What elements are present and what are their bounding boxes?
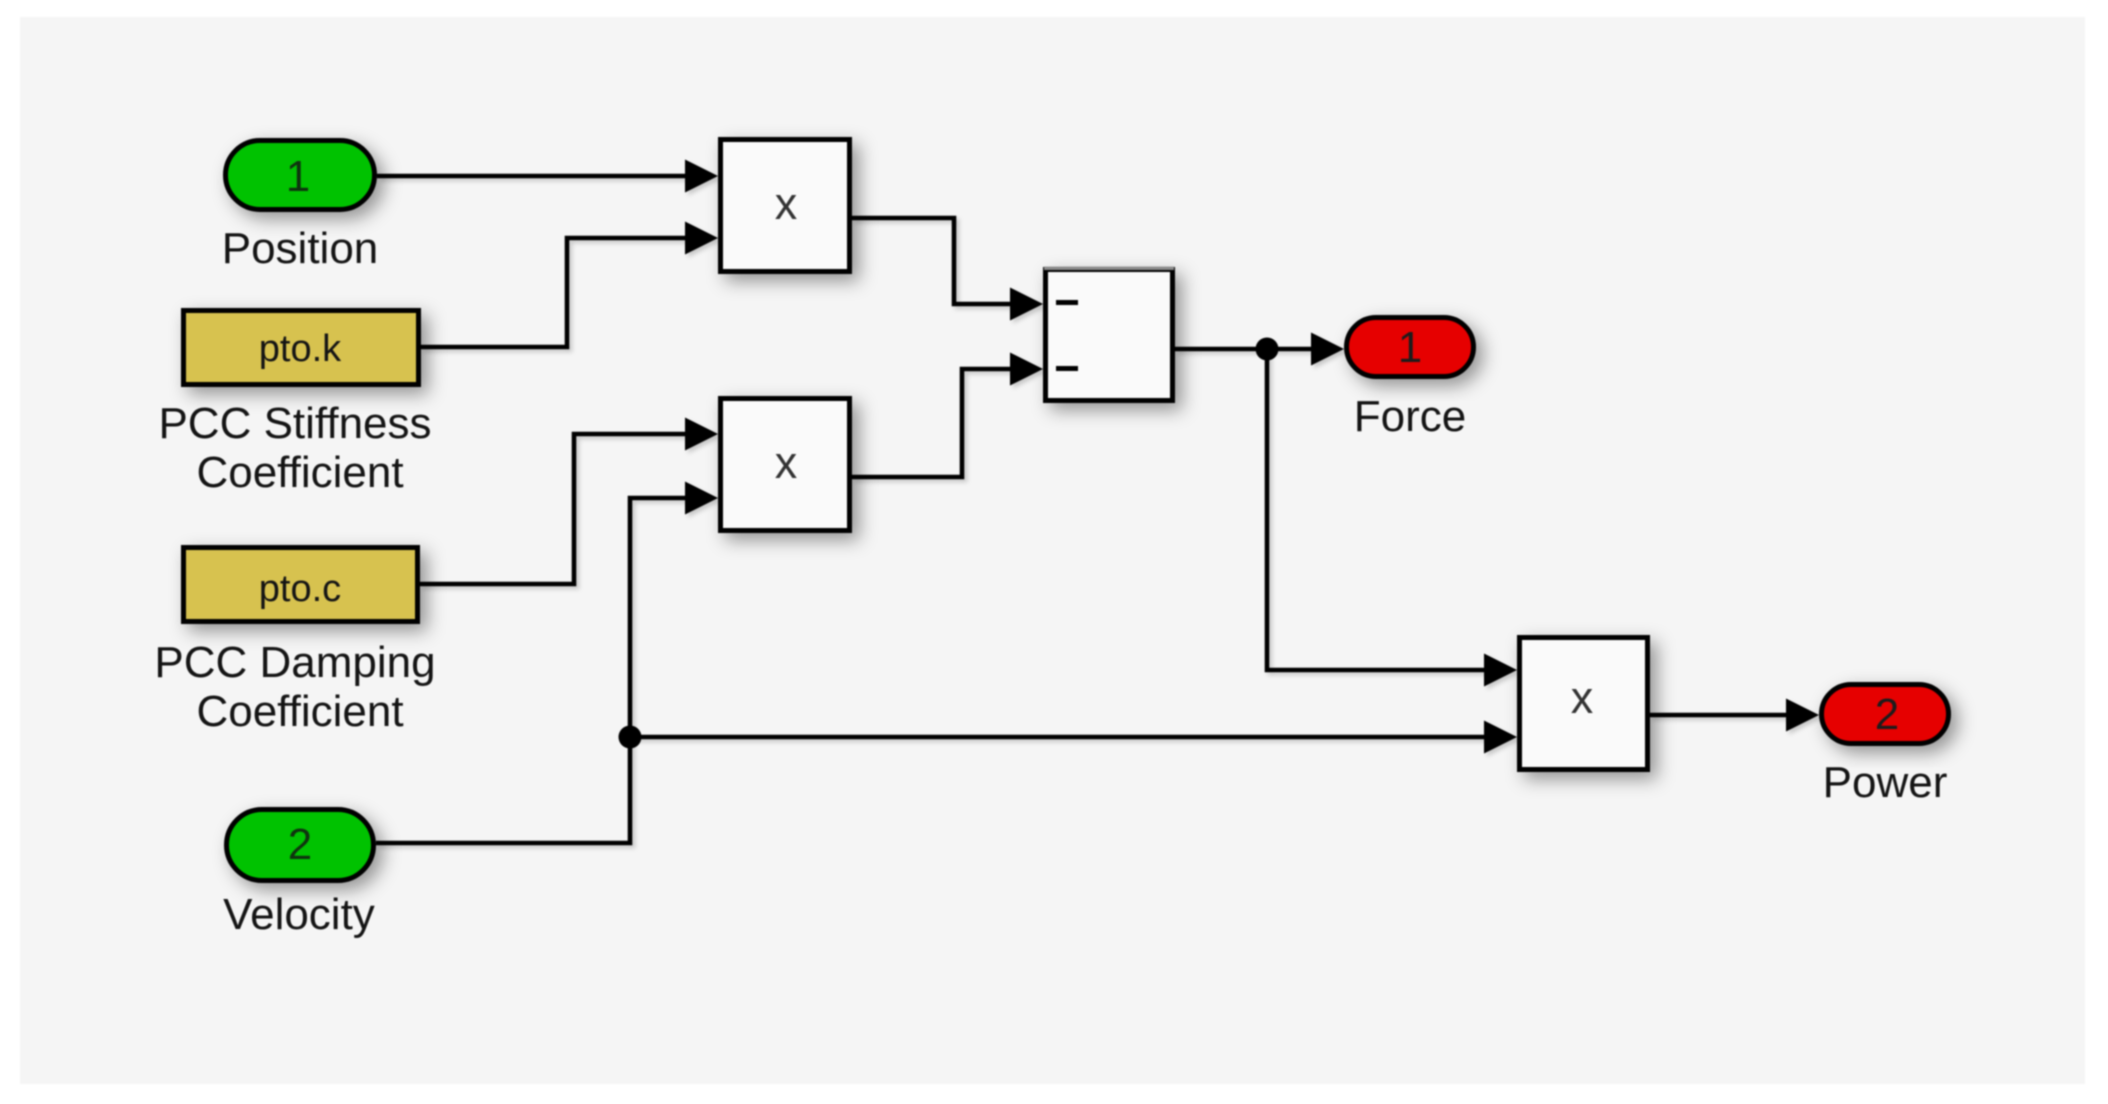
svg-text:x: x xyxy=(775,437,798,488)
svg-text:Coefficient: Coefficient xyxy=(196,687,403,736)
wire Sum out to Force xyxy=(1175,333,1344,366)
svg-text:x: x xyxy=(1571,672,1594,723)
svg-text:pto.c: pto.c xyxy=(259,568,341,610)
svg-text:PCC Damping: PCC Damping xyxy=(154,638,435,687)
inport 2 Velocity oval xyxy=(227,810,374,881)
wire Velocity to Product2 in2 xyxy=(376,482,718,844)
constant pto.k xyxy=(184,311,419,385)
product block P2 xyxy=(721,399,850,531)
junction dot force branch xyxy=(1256,338,1279,361)
svg-text:x: x xyxy=(775,178,798,229)
sum top border gray tone xyxy=(1044,267,1174,270)
svg-text:1: 1 xyxy=(1398,323,1422,372)
minus sign 2 xyxy=(1056,366,1078,371)
svg-text:Force: Force xyxy=(1354,392,1466,441)
wire pto.c to Product2 in1 xyxy=(420,418,718,585)
svg-text:Coefficient: Coefficient xyxy=(196,448,403,497)
minus sign 1 xyxy=(1056,300,1078,305)
product block P1 xyxy=(721,140,850,272)
wire Product3 out to Power xyxy=(1650,699,1819,732)
svg-text:Velocity: Velocity xyxy=(223,890,375,939)
wire Product2 out to Sum in2 xyxy=(852,353,1043,478)
inport 1 Position oval xyxy=(226,141,375,210)
junction dot velocity branch xyxy=(619,726,642,749)
product block P3 xyxy=(1520,638,1648,770)
wire Position to Product1 in1 xyxy=(377,160,718,193)
wire Product1 out to Sum in1 xyxy=(852,218,1043,321)
svg-text:1: 1 xyxy=(286,152,310,201)
svg-text:Power: Power xyxy=(1823,758,1948,807)
svg-text:PCC Stiffness: PCC Stiffness xyxy=(158,399,431,448)
svg-text:2: 2 xyxy=(1875,690,1899,739)
constant pto.c xyxy=(184,548,418,622)
svg-text:Position: Position xyxy=(222,224,379,273)
sum block xyxy=(1046,270,1173,401)
wire pto.k to Product1 in2 xyxy=(421,222,718,348)
svg-text:2: 2 xyxy=(288,820,312,869)
outport 1 Force oval xyxy=(1347,318,1474,377)
outport 2 Power oval xyxy=(1822,685,1949,744)
wire junction to Product3 in1 xyxy=(1267,349,1517,687)
svg-text:pto.k: pto.k xyxy=(259,328,342,370)
wire junction to Product3 in2 xyxy=(630,721,1517,754)
